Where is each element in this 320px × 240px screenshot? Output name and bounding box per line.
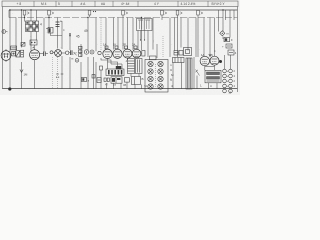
frame left border [2,7,4,89]
IF tube V5 [123,49,132,60]
right column switch box 3 [228,50,237,55]
second bus rail [9,17,237,19]
ground terminal blob bottom-left [8,87,11,90]
dashed ground wire [57,57,59,89]
small box on wire 93.5 [92,75,95,79]
loudspeaker/jack at left edge [2,30,9,34]
mixer circle X1 [50,45,66,57]
input box B [16,51,20,57]
small box atop lamp panel [150,56,157,60]
wire [203,18,205,57]
resistor R2 on bus [48,10,54,28]
wire [137,31,139,51]
wire [187,18,189,51]
wire [43,18,45,53]
power transformer winding (tall hatch) [186,58,192,89]
capacitor right of V2 [40,52,48,57]
detector tube V6 [132,49,141,58]
coil circle L2 [66,51,71,54]
double circle jack [84,50,94,54]
small parts right of V6 [142,51,145,57]
wire [127,18,129,50]
coil box L1 [46,28,53,34]
wire [30,32,32,51]
small box on wire 101 [100,66,103,70]
tick marks top of dashed wire [56,74,63,78]
wire [9,10,11,89]
wire [105,18,107,50]
wire [36,32,38,41]
output tube V9 [210,56,219,70]
wire [141,18,143,51]
wire [95,18,97,52]
wire [218,10,220,32]
wire [69,33,71,50]
tube V1 [1,49,12,62]
resistor R4 on bus [122,10,128,50]
wire (dotted) [162,36,164,57]
driver transformer T2 [136,59,143,74]
wire [21,10,23,48]
top supply bus [9,9,237,11]
wire [169,18,171,58]
resistor R7 on bus [197,10,203,57]
right column switch box 1 [224,38,233,43]
trimmer mark [69,34,71,36]
input box C [21,50,24,57]
wire [230,55,232,69]
bottom middle: twin caps [104,78,109,81]
wire [147,31,149,58]
stray value labels [12,12,216,89]
input box A2 [12,51,15,56]
tube labels [201,53,213,57]
bottom middle: resistor box [125,78,130,83]
wire [233,10,235,20]
wire [195,18,197,58]
wire [87,18,89,51]
wire [61,21,63,49]
tube V2 (converter) [30,45,40,89]
wire [100,18,102,51]
arrow head on wire 210 [209,54,211,57]
phase diamond [220,31,230,36]
wire [209,18,211,57]
battery cell block [106,69,124,76]
wire [117,18,119,50]
IF tube V4 [113,49,122,58]
bottom middle: terminal cluster [111,77,122,83]
lamp panel labels [170,63,174,88]
wire [222,10,224,32]
wire [193,57,195,89]
wire [229,10,231,38]
junction dots [9,9,223,18]
small circle on wire [98,51,101,54]
dial lamp panel P1 [145,60,168,93]
wire [180,18,182,48]
wire [152,18,154,50]
tube labels [103,43,136,47]
wire [181,63,183,89]
wires dropping to ground rail [53,56,174,89]
band switch block S1 [26,21,39,32]
output transformer T3 [205,70,221,88]
bottom middle: open box [132,77,141,85]
capacitor C2 [71,50,73,55]
wire [174,18,176,51]
IF tube V3 [103,49,112,62]
resistor R5 on bus [161,10,167,20]
wire [8,10,10,18]
wire [156,44,158,58]
input box A [11,46,17,50]
wire [205,66,215,68]
wire [30,10,32,21]
bottom right small labels [200,84,232,95]
wire [113,18,115,50]
wire [80,44,82,57]
scan noise overlay [0,0,1,1]
small box with label [82,78,90,83]
trimmer stack [79,46,83,56]
bottom middle component row: cap block [97,78,101,83]
speaker terminal circles [223,69,236,93]
grid caps above IF tubes [105,46,137,49]
volume control arrow on wire [20,62,28,89]
wire [57,18,59,49]
small parts left of V2 [21,43,25,47]
IF transformer T1 [137,19,153,41]
wire [51,33,63,36]
small circle component mid-left bottom [71,57,79,63]
rectifier network wires [101,58,122,69]
resistor R3 on bus [88,10,96,18]
ground rail bottom [3,88,238,90]
output tube V8 [200,56,209,70]
small box above hatch [184,48,192,56]
wire [222,37,224,40]
capacitor C1 [56,19,63,27]
diode D slant [195,70,199,89]
small filled circle right of V9 [219,60,222,63]
resistor R1 on bus [23,10,29,22]
choke box upper right of lamp panel [173,58,185,63]
wire [15,18,17,51]
small box pair mid-right [174,51,183,56]
wire [214,18,216,57]
frame right border [236,7,238,92]
wire [132,18,134,51]
wire [36,10,38,21]
title block header table [2,1,238,7]
wire [224,55,226,69]
right column switch box 2 [222,44,232,49]
resistor R6 on bus [176,10,182,57]
wire [225,10,227,20]
oscillator coil box above V2 [30,40,37,45]
ladder box [128,59,135,74]
